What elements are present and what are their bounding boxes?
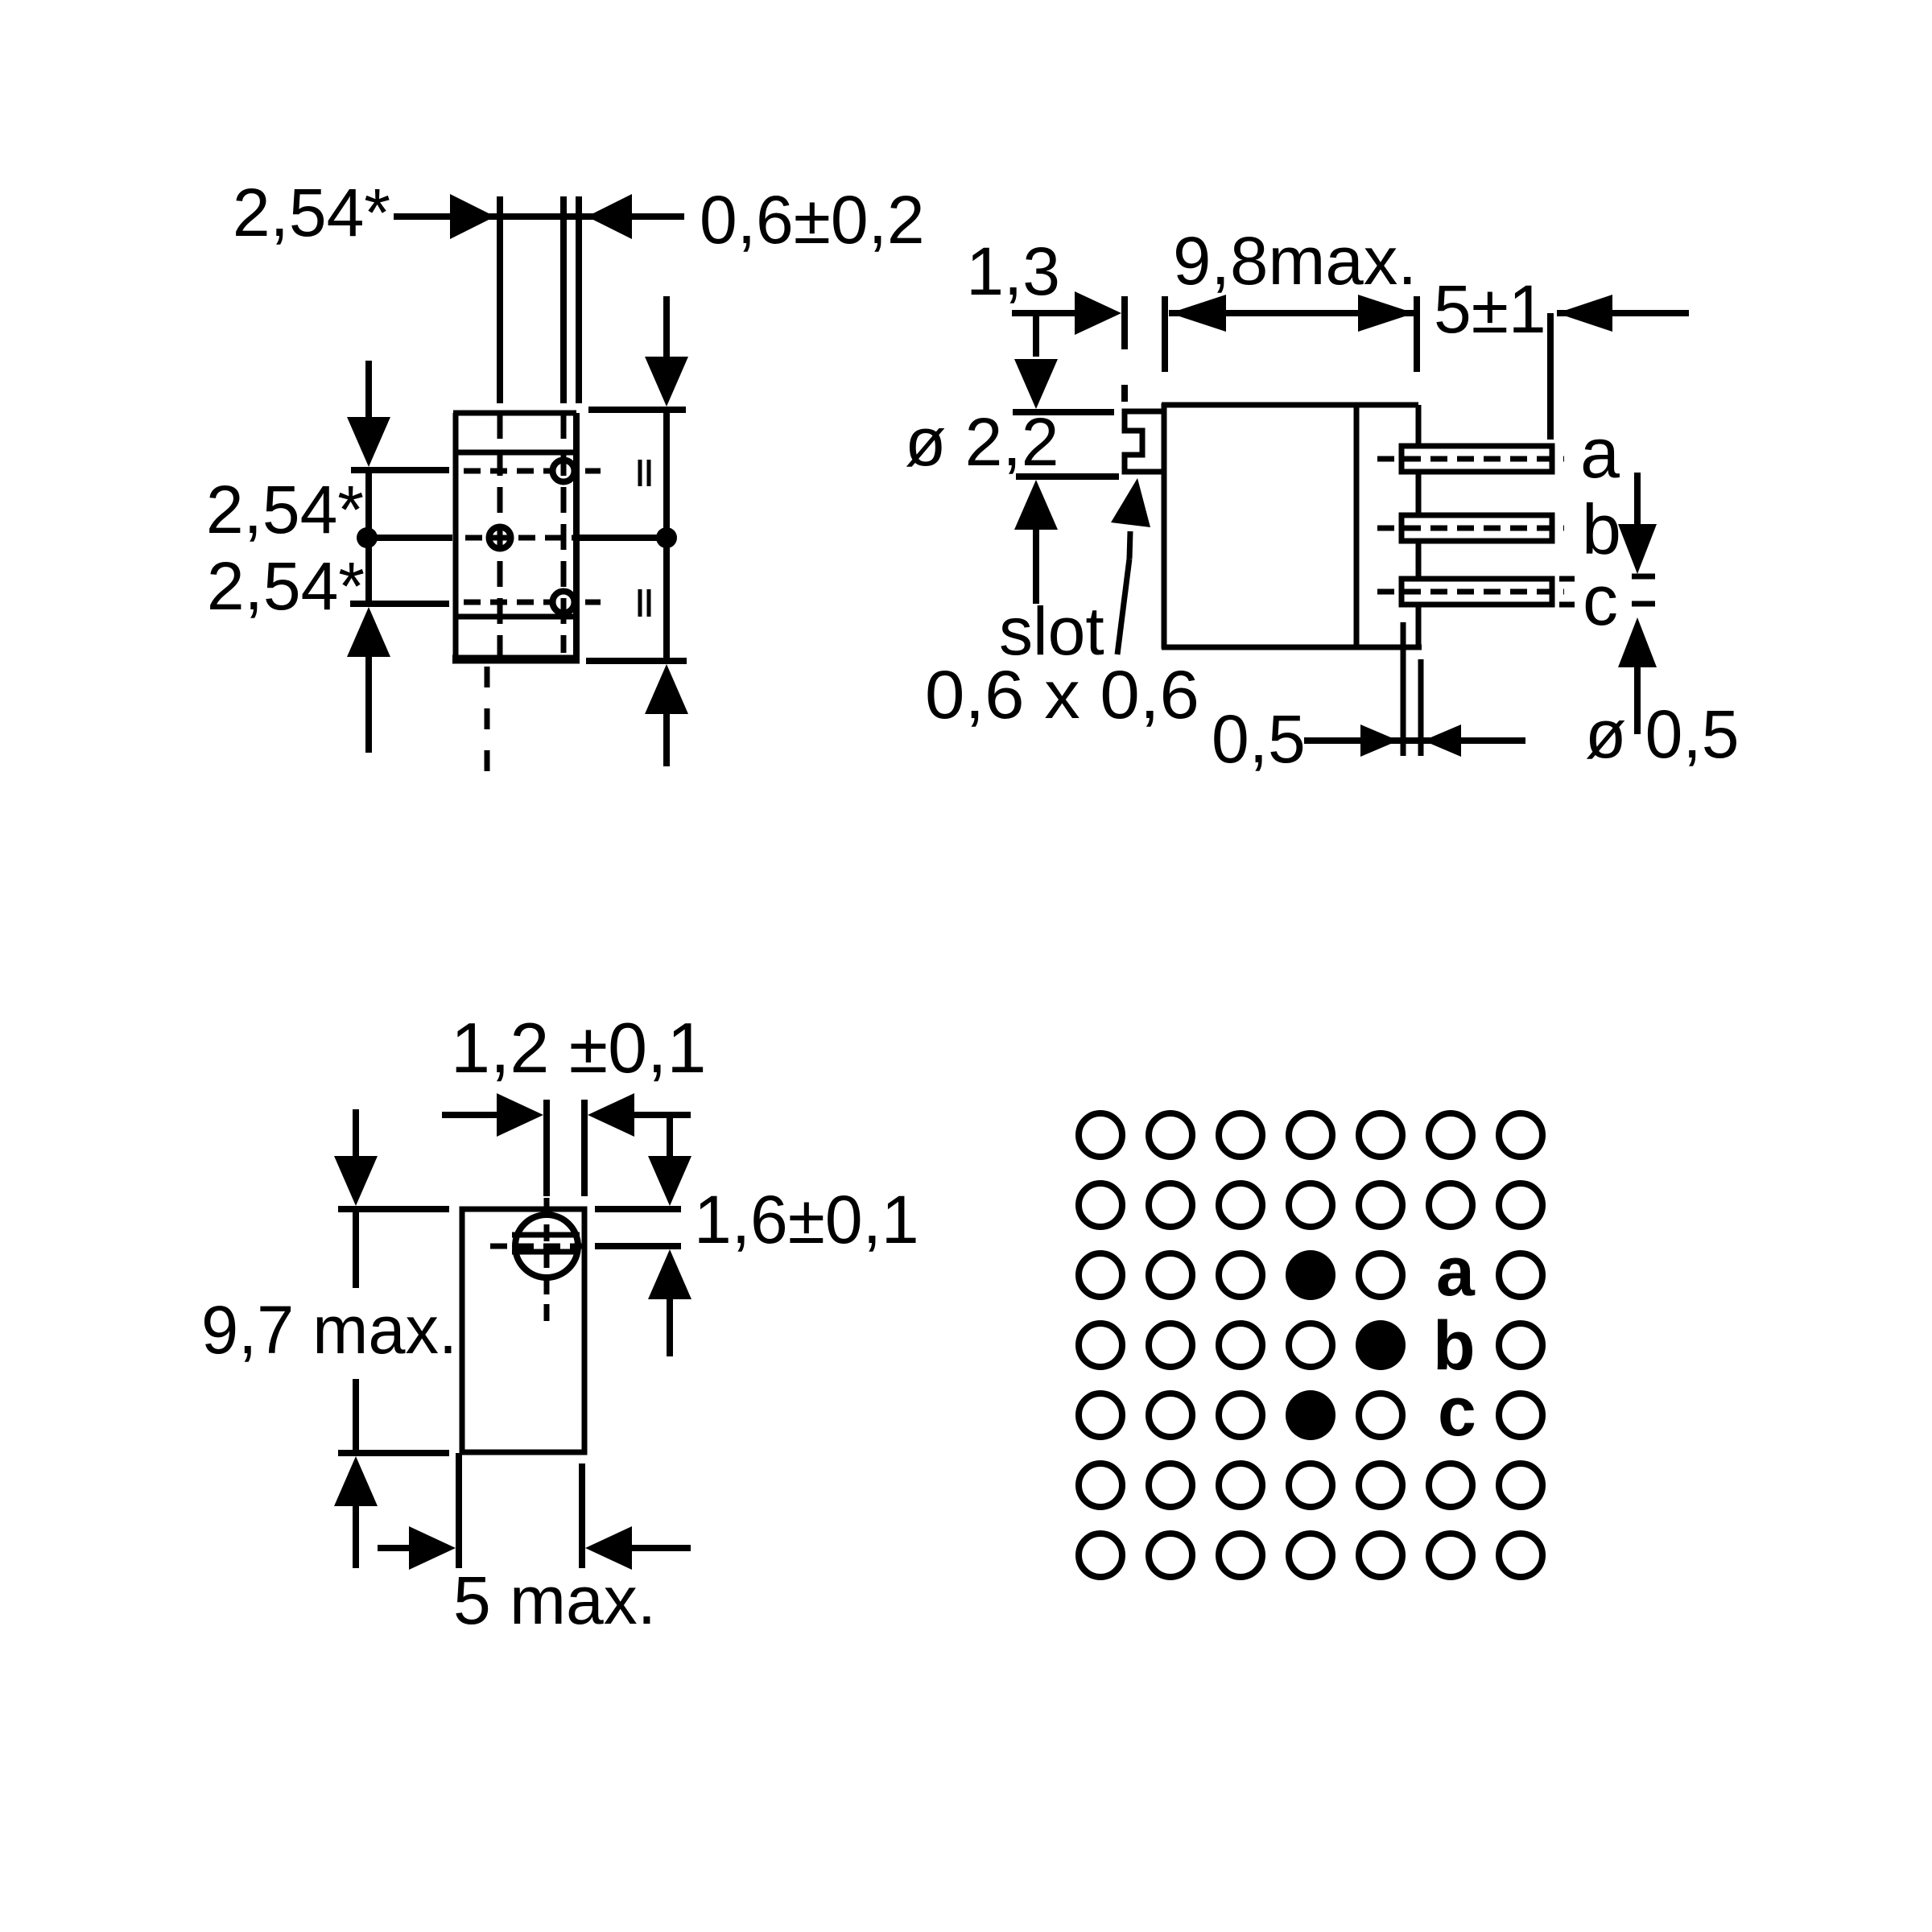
svg-text:a: a [1580, 413, 1620, 493]
up arrow 9,7 [334, 1456, 378, 1506]
screw center line vertical [544, 1198, 550, 1323]
down arrow left [365, 361, 372, 422]
ø0,5 tick bottom [1632, 601, 1655, 607]
extension line x1926 [1547, 313, 1554, 440]
center line row c [464, 600, 551, 605]
dimension line 5max left [378, 1545, 412, 1551]
ø0,5 up arrow [1618, 617, 1657, 667]
dimension line 1,3 [1012, 310, 1076, 316]
extension line 1,6 top [595, 1206, 681, 1212]
line dot to body left [367, 535, 452, 541]
down arrow 9,7 [353, 1109, 359, 1166]
body view2 bottom edge [1162, 645, 1422, 650]
down arrow 1,6 [667, 1115, 673, 1164]
svg-text:0,5: 0,5 [1212, 701, 1306, 777]
screw slot line top [512, 1232, 580, 1238]
arrow left 5±1 [1557, 295, 1612, 332]
pin c center line [1377, 589, 1564, 595]
arrow right 5max [409, 1526, 456, 1570]
pin a [1402, 446, 1552, 472]
extension line below right [579, 1463, 585, 1568]
arrow left 9,8 [1170, 295, 1226, 332]
hole b [489, 527, 511, 549]
left extension line row a [351, 467, 449, 473]
body view2 right edge segments [1416, 405, 1422, 446]
extension line x621 [497, 196, 503, 403]
svg-text:2,54*: 2,54* [233, 175, 390, 250]
dimension line 9,7 [353, 1209, 359, 1288]
hole c [553, 592, 575, 613]
svg-text:b: b [1582, 489, 1621, 569]
body inner line top [456, 450, 576, 456]
center line column left [497, 413, 503, 658]
body view2 inner face [1354, 405, 1360, 647]
svg-text:c: c [1583, 560, 1618, 640]
screw center line horizontal [490, 1244, 598, 1249]
right dimension line vertical [663, 410, 670, 661]
extension line ø2,2 top [1013, 409, 1114, 415]
arrow right 2,54* top [450, 194, 495, 239]
extension line x719 [576, 196, 582, 403]
extension line below left [456, 1453, 462, 1568]
svg-text:c: c [1438, 1373, 1476, 1451]
svg-text:5±1: 5±1 [1434, 271, 1546, 347]
hole grid row 2 [1079, 1183, 1542, 1227]
svg-text:a: a [1436, 1233, 1476, 1311]
extension line x1447 [1162, 296, 1168, 372]
pin c end dashes [1559, 576, 1575, 582]
parallelism mark lower [638, 589, 642, 617]
body view3 [462, 1209, 584, 1452]
up arrow ø2,2 [1014, 480, 1058, 530]
body inner line bottom [456, 614, 576, 620]
shaft tab with slot [1125, 411, 1164, 472]
center line row b [465, 535, 575, 541]
ø0,5 down arrow [1634, 473, 1641, 526]
arrow left 1,2 [588, 1093, 634, 1137]
svg-text:1,6±0,1: 1,6±0,1 [694, 1182, 919, 1257]
dimension line 5±1 [1557, 310, 1689, 316]
up arrow 1,6 [648, 1249, 691, 1299]
body view2 left edge [1162, 403, 1167, 649]
arrow right 9,8 [1358, 295, 1414, 332]
extension line x1760 [1414, 296, 1420, 372]
hole grid row 6 [1079, 1463, 1542, 1507]
ø0,5 tick top [1632, 574, 1655, 580]
svg-text:1,2 ±0,1: 1,2 ±0,1 [451, 1008, 706, 1088]
lower line x1743 [1401, 622, 1406, 756]
dimension line 1,2 left [442, 1112, 500, 1118]
svg-text:0,6±0,2: 0,6±0,2 [700, 182, 925, 258]
center line column right [561, 413, 567, 653]
extension line 1,6 bottom [595, 1243, 681, 1249]
right extension line bottom [586, 658, 687, 664]
arrow left 5max [585, 1526, 632, 1570]
svg-text:1,3: 1,3 [966, 233, 1060, 309]
svg-text:5 max.: 5 max. [453, 1563, 656, 1638]
slot leader arrow [1111, 478, 1150, 527]
dot right row b [656, 527, 677, 548]
pin c [1402, 579, 1552, 605]
up arrow left [347, 607, 390, 657]
dot left row b [357, 527, 378, 548]
hole grid row 7 [1079, 1534, 1542, 1577]
extension line x700 [560, 196, 567, 403]
up arrow right [645, 664, 688, 714]
svg-text:9,8max.: 9,8max. [1173, 223, 1417, 299]
svg-text:2,54*: 2,54* [206, 472, 364, 547]
hole grid row 4 [1079, 1323, 1542, 1367]
screw slot line bottom [512, 1249, 580, 1255]
screw head circle [515, 1215, 578, 1278]
hole grid row 5 [1079, 1393, 1542, 1437]
filled hole b [1356, 1320, 1406, 1370]
lower line x1765 [1418, 659, 1424, 756]
right extension line top [588, 407, 686, 413]
hole grid row 1 [1079, 1113, 1542, 1157]
pin a center line [1377, 456, 1564, 462]
extension line ø2,2 bottom [1016, 473, 1119, 480]
arrow right 0,5 [1360, 724, 1398, 757]
body outline view1 [453, 413, 459, 659]
svg-text:2,54*: 2,54* [207, 548, 365, 624]
arrow right 1,2 [497, 1093, 543, 1137]
arrow left 0,6 top [587, 194, 632, 239]
dimension line 5max right [630, 1545, 691, 1551]
extension line x1397 [1121, 296, 1128, 349]
extension line x679 [543, 1100, 550, 1196]
center line row a [464, 469, 551, 474]
svg-text:ø 0,5: ø 0,5 [1585, 696, 1739, 772]
left extension line 9,7 top [338, 1206, 449, 1212]
left extension line row c [350, 601, 449, 607]
hole grid row 3 [1079, 1253, 1542, 1297]
down arrow ø2,2 [1033, 313, 1039, 357]
dimension line 0,5 [1304, 737, 1525, 744]
svg-text:ø 2,2: ø 2,2 [905, 404, 1059, 480]
dimension line 1,2 right [633, 1112, 691, 1118]
arrow right 1,3 [1075, 291, 1121, 335]
body view2 top edge [1162, 402, 1418, 408]
svg-text:0,6 x 0,6: 0,6 x 0,6 [925, 657, 1199, 733]
extension line x726 [581, 1100, 588, 1196]
pin b center line [1377, 526, 1564, 531]
line body to dot right [580, 535, 667, 541]
parallelism mark upper [638, 460, 642, 486]
hole a [553, 460, 575, 482]
dimension line 2,54* top [394, 213, 684, 220]
arrow left 0,5 [1423, 724, 1461, 757]
svg-text:9,7 max.: 9,7 max. [201, 1292, 457, 1368]
pin b [1402, 515, 1552, 541]
filled hole a [1286, 1250, 1335, 1300]
dimension line 9,8max [1169, 310, 1415, 316]
center line below body [485, 667, 490, 779]
filled hole c [1286, 1390, 1335, 1440]
left dimension line vertical [365, 470, 372, 604]
left extension line 9,7 bottom [338, 1450, 449, 1456]
down arrow right [663, 296, 670, 358]
